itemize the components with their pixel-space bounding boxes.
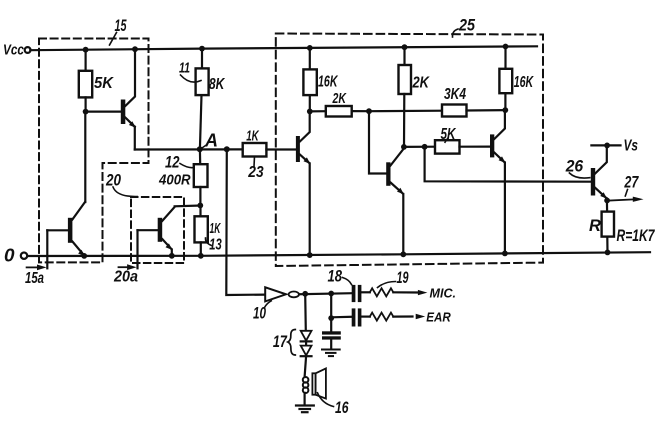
junction dot A to amplifier branch (224, 146, 230, 152)
resistor 1K (23) (243, 129, 296, 157)
node Vs terminal (591, 138, 638, 155)
svg-text:5K: 5K (441, 126, 457, 143)
label 11 (179, 61, 201, 83)
capacitor 18 (MIC branch) (352, 285, 362, 302)
junction dot 8K top on rail (199, 46, 205, 52)
node 0 terminal (4, 246, 27, 266)
dashed box block 25 (276, 34, 543, 267)
resistor 3K4 (442, 86, 505, 117)
junction dot 16K right bottom node (502, 107, 508, 113)
resistor 16K (right, block 25) (499, 47, 534, 111)
resistor 400R (12) (158, 149, 207, 205)
wire filter cap vertical (330, 318, 332, 331)
resistor 1K (13) (195, 205, 222, 255)
transistor Q15 (top of block 15) (86, 49, 136, 149)
resistor R load (589, 212, 614, 253)
label 20 (105, 172, 137, 197)
junction dot Q15 collector on rail (132, 46, 138, 52)
junction dot 5K bottom / Q15 base (83, 109, 89, 115)
junction dot 2K-horizontal right / Q24 base node (366, 108, 372, 114)
label 15 (110, 17, 128, 45)
wire EAR branch horizontal (331, 316, 352, 319)
svg-text:5K: 5K (94, 75, 115, 92)
wire 0V bottom rail (28, 252, 650, 256)
svg-text:R: R (589, 217, 601, 235)
diode 17 upper (301, 331, 312, 346)
label 16 (318, 393, 350, 417)
svg-text:15a: 15a (25, 270, 44, 287)
terminal MIC output (418, 286, 456, 301)
resistor 5K (block 15) (79, 50, 115, 112)
svg-text:20a: 20a (113, 269, 138, 286)
terminal 15a input (25, 230, 47, 287)
resistor 2K (vertical, block 25) (399, 47, 431, 147)
dashed box block 15 (39, 39, 149, 263)
svg-text:EAR: EAR (426, 309, 451, 324)
junction dot EAR branch / filter cap (328, 315, 334, 321)
transistor Q15a (bottom of block 15) (47, 202, 85, 256)
wire diode to speaker coil (305, 356, 307, 377)
junction dot 16K right top on rail (503, 44, 509, 50)
label 13 (205, 237, 222, 254)
inductor coil (speaker 16) (303, 377, 309, 393)
junction dot Q26 emitter output node (604, 198, 610, 204)
svg-text:A: A (204, 131, 218, 151)
wire Vcc top rail (30, 46, 537, 50)
resistor 2K (horizontal) (310, 90, 369, 117)
junction dot 16K left top on rail (307, 45, 313, 51)
wire 5K junction down to Q15a collector (84, 112, 86, 202)
svg-text:16K: 16K (318, 74, 339, 91)
capacitor filter (to ground) (322, 331, 341, 349)
wire node A horizontal line (135, 148, 243, 150)
svg-text:26: 26 (565, 158, 584, 176)
node A junction dot (197, 146, 203, 152)
transistor Q26 (output) (591, 145, 607, 211)
svg-text:23: 23 (247, 164, 264, 181)
wire diode branch vertical (304, 294, 307, 331)
junction dot 2K top on rail (402, 44, 408, 50)
transistor Q20 (block 20) (138, 206, 201, 256)
svg-text:1K: 1K (210, 221, 222, 237)
junction dot 16K left bottom node (307, 109, 313, 115)
op-amp buffer 10 (265, 287, 352, 301)
svg-text:2K: 2K (332, 90, 347, 107)
junction dot Q15a emitter on rail (81, 253, 87, 259)
svg-text:12: 12 (165, 154, 180, 172)
terminal 20a input (113, 230, 138, 285)
junction dot 1K-13 bottom on rail (198, 253, 204, 259)
label 17 with brace (273, 330, 295, 356)
transistor Q24 (block 25 middle) (369, 111, 404, 254)
svg-text:2K: 2K (412, 75, 431, 92)
transistor Q25 (block 25 right) (490, 110, 506, 253)
label 12 (165, 154, 194, 172)
wire A to amplifier 10 input (226, 149, 265, 295)
label 10 (253, 301, 271, 323)
svg-text:MIC.: MIC. (430, 286, 457, 301)
node Vcc terminal (3, 43, 31, 59)
junction dot 5K top on rail (83, 47, 89, 53)
ground (speaker) (296, 406, 314, 413)
junction dot Q23 emitter on rail (307, 252, 313, 258)
svg-text:16: 16 (335, 399, 349, 417)
resistor 5K (horizontal, block 25) (404, 126, 490, 154)
svg-text:17: 17 (273, 333, 288, 351)
junction dot Q24 collector / 2K bottom / 5K left (401, 144, 407, 150)
capacitor (EAR branch) (352, 308, 362, 326)
junction dot EAR branch tap (328, 291, 334, 297)
wire feedback to output transistor base (425, 147, 591, 182)
wire EAR branch vertical (330, 294, 332, 319)
svg-text:Vs: Vs (624, 138, 639, 155)
svg-text:27: 27 (624, 174, 639, 192)
resistor 19 zigzag (MIC) (361, 288, 417, 296)
terminal 27 output arrow (607, 174, 643, 202)
label 25 (452, 17, 475, 38)
label A (201, 131, 218, 151)
label 26 (565, 158, 590, 179)
junction dot 400R bottom / Q20 collector (197, 203, 203, 209)
svg-text:8K: 8K (209, 76, 226, 93)
svg-text:Vcc: Vcc (3, 43, 24, 59)
label 18 (328, 268, 352, 286)
junction dot Q25 emitter on rail (502, 251, 508, 257)
loudspeaker 16 (312, 368, 326, 398)
svg-text:3K4: 3K4 (444, 86, 466, 103)
svg-text:0: 0 (4, 246, 15, 266)
resistor 16K (left, block 25) (303, 48, 338, 112)
resistor zigzag (EAR) (361, 313, 412, 321)
svg-text:R=1K7: R=1K7 (617, 227, 656, 245)
junction dot feedback tap on 5K wire (422, 144, 428, 150)
wire coil to ground (304, 393, 306, 405)
svg-text:1K: 1K (246, 129, 260, 145)
junction dot Q20 emitter on rail (169, 253, 175, 259)
label 19 (378, 269, 410, 288)
svg-text:400R: 400R (158, 172, 191, 189)
wire node to 3K4 (369, 110, 442, 113)
svg-text:25: 25 (458, 17, 476, 35)
label 23 (247, 157, 264, 182)
terminal EAR output (416, 309, 451, 324)
diode 17 lower (301, 346, 312, 357)
svg-text:19: 19 (397, 269, 410, 287)
dashed box block 20 (131, 197, 184, 263)
junction dot Q24 emitter on rail (400, 251, 406, 257)
resistor 8K (11) (196, 49, 226, 150)
junction dot R bottom on rail (605, 250, 611, 256)
svg-text:16K: 16K (514, 74, 535, 91)
junction dot amplifier output / diode branch (302, 291, 308, 297)
transistor Q23 (block 25 input) (296, 111, 311, 255)
ground (filter cap) (322, 350, 340, 357)
svg-text:18: 18 (328, 268, 343, 286)
